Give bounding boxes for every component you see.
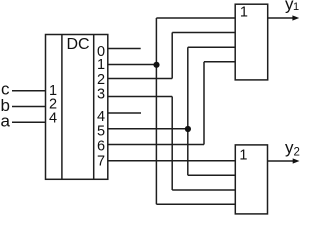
- svg-text:4: 4: [49, 111, 57, 127]
- wire decoder output 6: [108, 144, 204, 146]
- wire gate U2 input 1: [156, 17, 235, 19]
- svg-text:4: 4: [97, 109, 105, 125]
- wire net output5 vertical: [187, 47, 189, 175]
- OR gate U3 box (y2): [235, 145, 267, 214]
- wire gate U2 input 4: [204, 61, 235, 63]
- wire decoder output 0 stub: [108, 48, 141, 50]
- wire net output1 vertical: [155, 18, 157, 204]
- wire decoder output 2: [108, 78, 172, 80]
- wire input b: [12, 106, 46, 108]
- svg-text:3: 3: [97, 87, 105, 103]
- wire gate U2 input 3: [188, 46, 235, 48]
- svg-text:7: 7: [97, 154, 105, 170]
- wire output y2: [268, 160, 294, 162]
- wire decoder output 1: [108, 64, 156, 66]
- wire decoder output 3: [108, 96, 172, 98]
- decoder U1 box: [46, 35, 108, 180]
- wire decoder output 5: [108, 128, 188, 130]
- decoder left divider: [61, 35, 63, 180]
- wire gate U3 input 4: [156, 203, 235, 205]
- wire gate U3 input 3: [172, 189, 235, 191]
- svg-text:DC: DC: [66, 36, 89, 53]
- arrowhead y2: [293, 158, 300, 163]
- wire decoder output 7 to gate U3 input 1: [108, 160, 235, 162]
- decoder right divider: [93, 35, 95, 180]
- svg-text:2: 2: [97, 72, 105, 88]
- wire net output6 vertical: [203, 62, 205, 145]
- wire input c: [12, 90, 46, 92]
- svg-text:6: 6: [97, 138, 105, 154]
- wire gate U3 input 2: [188, 174, 236, 176]
- wire decoder output 4 stub: [108, 112, 141, 114]
- arrowhead y1: [292, 15, 299, 20]
- wire output y1: [268, 17, 294, 19]
- wire input a: [12, 121, 46, 123]
- svg-text:2: 2: [293, 147, 299, 159]
- junction node output5: [185, 126, 191, 132]
- svg-text:1: 1: [239, 148, 247, 164]
- wire net output3 vertical: [171, 97, 173, 191]
- wire net output2 vertical: [171, 33, 173, 79]
- svg-text:5: 5: [97, 124, 105, 140]
- svg-text:1: 1: [240, 5, 248, 21]
- svg-text:a: a: [0, 112, 10, 131]
- svg-text:1: 1: [293, 1, 299, 13]
- wire gate U2 input 2: [172, 32, 235, 34]
- OR gate U2 box (y1): [235, 4, 268, 80]
- junction node output1: [153, 62, 159, 68]
- svg-text:1: 1: [97, 57, 105, 73]
